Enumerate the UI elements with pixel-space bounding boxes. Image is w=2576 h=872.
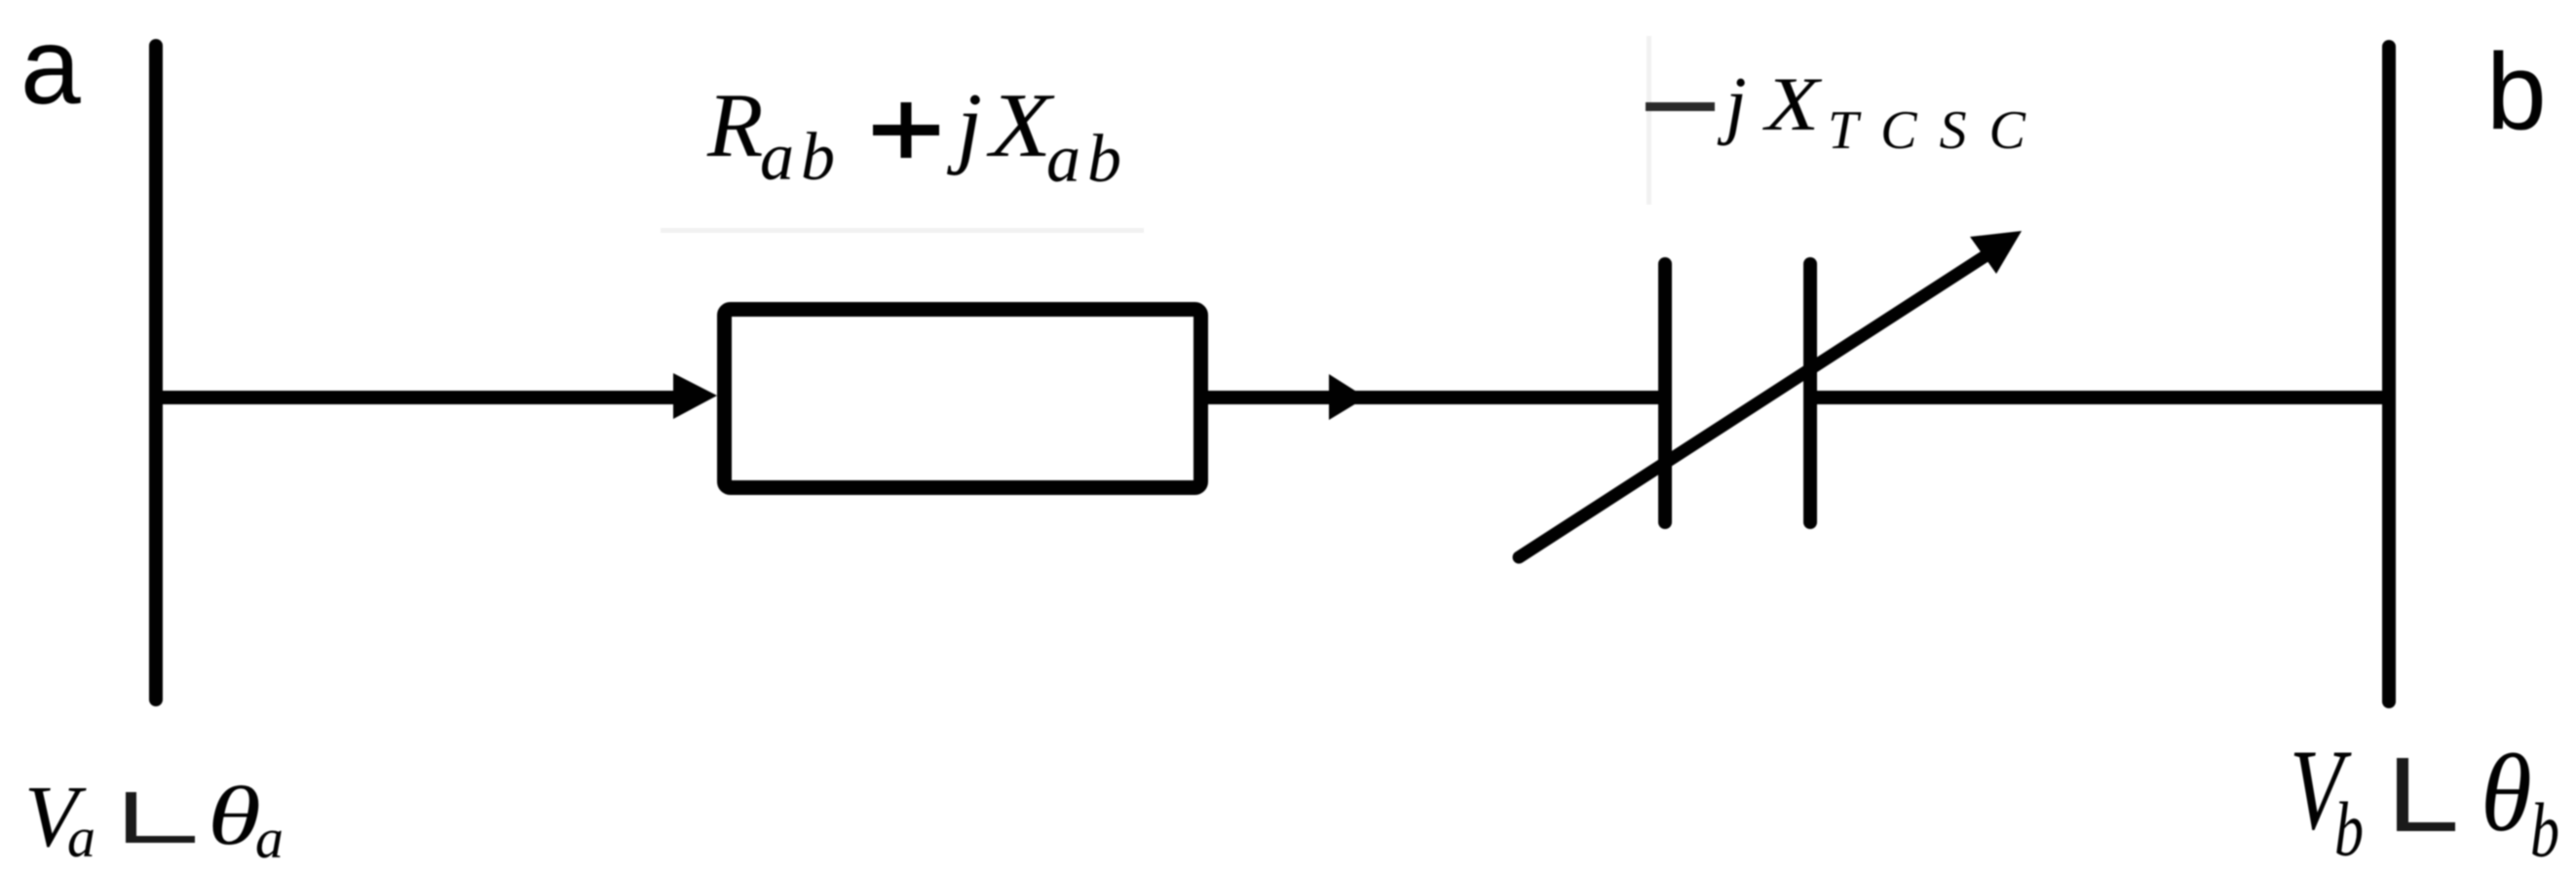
resistor box (series impedance R_ab + jX_ab) <box>725 310 1201 488</box>
svg-text:a: a <box>255 807 284 870</box>
bus b (right vertical busbar) <box>2382 47 2396 701</box>
svg-text:b: b <box>2530 788 2559 872</box>
bus a voltage label V_a angle theta_a <box>24 769 284 870</box>
arrowhead on wire into box <box>673 373 717 419</box>
wire from box to capacitor <box>1208 391 1658 404</box>
svg-text:a: a <box>67 806 95 869</box>
svg-text:ab: ab <box>1046 122 1128 197</box>
bus a (left vertical busbar) <box>149 46 163 700</box>
svg-text:b: b <box>2334 787 2364 872</box>
angle symbol <box>2397 758 2408 831</box>
impedance value label R_ab + jX_ab <box>706 75 1128 197</box>
wire from capacitor to bus b <box>1810 391 2389 404</box>
faint artifact line under R label <box>661 228 1144 233</box>
svg-text:R: R <box>706 75 763 176</box>
svg-text:ab: ab <box>760 120 842 195</box>
svg-text:b: b <box>2486 31 2547 152</box>
angle symbol <box>126 792 136 843</box>
wire from bus a to resistor box <box>156 391 682 404</box>
svg-text:X: X <box>1762 63 1823 147</box>
TCSC variable capacitor: right plate <box>1803 264 1817 522</box>
svg-text:X: X <box>986 75 1055 176</box>
svg-text:θ: θ <box>208 769 261 862</box>
arrowhead on wire after box <box>1329 374 1366 420</box>
svg-text:TCSC: TCSC <box>1828 100 2048 161</box>
svg-text:a: a <box>20 6 81 127</box>
TCSC reactance label -jX_TCSC <box>1646 61 2048 161</box>
svg-text:θ: θ <box>2481 731 2532 853</box>
TCSC variable capacitor: left plate <box>1658 264 1672 522</box>
faint artifact vertical line above left capacitor plate <box>1647 36 1651 205</box>
bus b voltage label V_b angle theta_b <box>2290 725 2559 872</box>
plus sign drawn as lines <box>873 125 939 135</box>
variable-arrow through capacitor <box>1519 231 2022 557</box>
